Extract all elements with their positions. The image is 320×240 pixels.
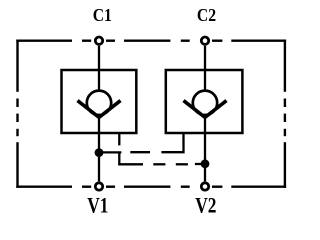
junction node right — [201, 159, 210, 168]
enclosure right edge dash 1 — [284, 99, 286, 108]
svg-text:C2: C2 — [197, 5, 216, 25]
svg-text:V1: V1 — [87, 193, 108, 218]
port V2 — [201, 183, 208, 190]
port C1 — [95, 37, 102, 44]
wire right valve seat to V2 port — [204, 117, 206, 182]
enclosure top edge dash left of C1 — [82, 40, 91, 42]
port V1 — [95, 183, 102, 190]
svg-text:V2: V2 — [195, 193, 216, 218]
enclosure left edge dash 2 — [16, 114, 18, 122]
check valve seat left — [78, 101, 121, 118]
wire right valve stem to ball — [204, 70, 206, 92]
pilot line from left valve: tap dash below box — [118, 133, 120, 145]
check valve body box right — [166, 70, 243, 133]
check valve ball left — [87, 91, 111, 115]
enclosure bottom edge dash left of V2 — [181, 185, 190, 187]
pilot line left-to-right: dash 2 — [176, 163, 188, 165]
check valve seat right — [184, 101, 227, 118]
enclosure bottom edge dash right of V1 — [106, 185, 115, 187]
enclosure right edge lower solid — [284, 142, 286, 188]
enclosure top edge dash right of C1 — [106, 40, 115, 42]
enclosure bottom edge dash left of V1 — [82, 185, 91, 187]
pilot line from left valve: tap lower segment and corner — [119, 153, 143, 165]
enclosure left edge dash 1 — [16, 99, 18, 108]
enclosure left edge upper solid — [16, 40, 18, 92]
enclosure top edge dash left of C2 — [181, 40, 190, 42]
enclosure right edge dash 3 — [284, 129, 286, 136]
pilot line right-to-left: middle dash — [130, 151, 150, 153]
wire C1 port to left valve box — [98, 46, 100, 70]
wire C2 port to right valve box — [204, 46, 206, 70]
enclosure bottom edge dash right of V2 — [212, 185, 222, 187]
pilot line from right valve: tap down from box and corner — [161, 133, 183, 152]
enclosure left edge lower solid — [16, 142, 18, 188]
enclosure right edge dash 2 — [284, 114, 286, 122]
pilot line right-to-left: solid segment into left node — [101, 151, 121, 153]
enclosure top edge left solid — [16, 40, 72, 42]
wire left valve stem to ball — [98, 70, 100, 92]
enclosure left edge dash 3 — [16, 129, 18, 136]
check valve ball right — [193, 91, 217, 115]
wire left valve seat to V1 port — [98, 117, 100, 182]
pilot line left-to-right: dash 1 — [153, 163, 165, 165]
junction node left — [95, 148, 104, 157]
port C2 — [201, 37, 208, 44]
enclosure bottom edge middle solid — [124, 185, 170, 187]
enclosure bottom edge right solid — [231, 185, 286, 187]
pilot line left-to-right: solid into right node — [195, 163, 205, 165]
enclosure top edge middle solid — [124, 40, 170, 42]
enclosure top edge right solid — [231, 40, 286, 42]
enclosure top edge dash right of C2 — [212, 40, 222, 42]
enclosure bottom edge left solid — [16, 185, 72, 187]
enclosure right edge upper solid — [284, 40, 286, 92]
svg-text:C1: C1 — [93, 5, 112, 25]
check valve body box left — [62, 70, 137, 133]
